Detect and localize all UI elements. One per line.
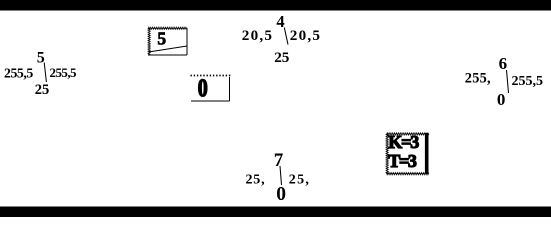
block "5" sawtooth left edge — [148, 28, 150, 55]
node B (top-centre junction) — [242, 12, 321, 66]
block "5" sawtooth top edge — [148, 27, 187, 29]
block "5" body — [148, 28, 187, 56]
node A (left junction) — [4, 49, 77, 98]
svg-text:255,: 255, — [465, 71, 491, 87]
top black bar — [0, 0, 551, 11]
svg-text:4: 4 — [276, 12, 284, 31]
svg-text:255,5: 255,5 — [50, 65, 78, 80]
svg-text:5: 5 — [37, 49, 45, 66]
block "0" dotted top edge — [191, 75, 233, 77]
node A branch line — [44, 63, 46, 83]
svg-text:0: 0 — [276, 184, 286, 205]
block K right edge (thick) — [425, 133, 429, 174]
block "5" ramp line — [149, 46, 188, 52]
svg-text:K=3: K=3 — [388, 132, 419, 152]
block "0" bottom edge — [191, 100, 230, 102]
svg-text:5: 5 — [157, 28, 166, 48]
block K sawtooth left edge — [386, 134, 388, 174]
block "0" right edge — [229, 77, 231, 101]
svg-text:0: 0 — [497, 90, 506, 109]
node D branch line — [280, 166, 282, 185]
block "5" right edge — [186, 28, 188, 55]
svg-text:25: 25 — [35, 82, 50, 98]
svg-text:255,5: 255,5 — [512, 74, 544, 89]
svg-text:T=3: T=3 — [388, 151, 417, 171]
bottom black bar — [0, 207, 551, 218]
svg-text:20,5: 20,5 — [290, 27, 321, 44]
block "5" bottom edge — [148, 54, 187, 56]
svg-text:255,5: 255,5 — [4, 66, 33, 81]
svg-text:25: 25 — [274, 49, 290, 66]
node C (right junction) — [465, 54, 543, 109]
svg-text:7: 7 — [274, 150, 284, 171]
node D (bottom-centre junction) — [246, 150, 311, 205]
svg-text:25,: 25, — [246, 173, 266, 188]
node C branch line — [507, 70, 509, 93]
node B branch line — [284, 28, 288, 45]
block K body — [386, 133, 429, 174]
block K sawtooth top edge — [386, 133, 429, 135]
block "0" body — [191, 77, 230, 101]
svg-text:0: 0 — [198, 75, 208, 102]
block "K=3 T=3" (transfer block) — [386, 132, 429, 175]
block "5" (ramp source block) — [148, 27, 187, 55]
block "0" (constant block) — [191, 75, 233, 102]
block K sawtooth bottom edge — [386, 173, 429, 175]
svg-text:6: 6 — [499, 54, 508, 73]
svg-text:20,5: 20,5 — [242, 27, 273, 44]
svg-text:25,: 25, — [289, 173, 310, 188]
